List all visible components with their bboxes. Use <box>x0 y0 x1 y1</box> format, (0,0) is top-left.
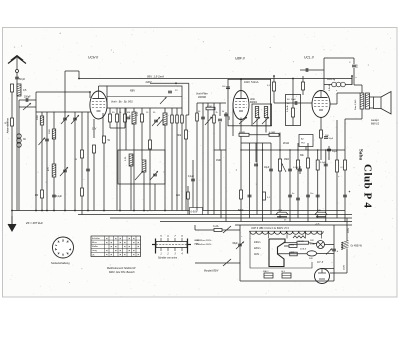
capacitor 50uF mid <box>324 136 328 138</box>
svg-text:220V+: 220V+ <box>254 248 261 250</box>
wire cr182 <box>181 108 183 115</box>
switch mains a <box>223 226 231 233</box>
box oscillator <box>118 150 165 184</box>
wire v54 <box>53 112 55 211</box>
capacitor af4c <box>316 194 320 196</box>
capacitor left d <box>52 194 56 196</box>
wire v65 top <box>64 71 66 112</box>
coil IF2a <box>255 107 258 118</box>
svg-text:95V, 1,5-2mA: 95V, 1,5-2mA <box>147 74 164 78</box>
resistor 1M left <box>41 190 44 198</box>
resistor 70 <box>181 115 184 123</box>
wire heater tap <box>268 231 270 238</box>
wire v317 <box>317 150 319 218</box>
resistor 0,1M a <box>206 107 215 110</box>
svg-text:Gr 455/ W: Gr 455/ W <box>351 245 363 248</box>
svg-text:66μF: 66μF <box>233 243 239 245</box>
wire lc bottom <box>19 106 36 108</box>
svg-text:Schalter von unten: Schalter von unten <box>158 257 178 260</box>
svg-text:UY II: UY II <box>317 260 323 264</box>
wire v298 <box>297 143 299 218</box>
svg-text:1MΩ: 1MΩ <box>284 159 289 161</box>
wire grid row <box>274 102 312 104</box>
wire out bottom <box>345 118 362 120</box>
svg-text:9/9/300: 9/9/300 <box>198 96 207 99</box>
wire v42 <box>41 112 43 211</box>
svg-text:50μF: 50μF <box>238 209 244 212</box>
wire heater tap <box>286 231 288 238</box>
resistor v264r <box>263 192 266 200</box>
wire v290 <box>289 150 291 222</box>
wire v214 <box>213 150 215 215</box>
wire v188 top <box>188 83 190 115</box>
wire v208 <box>207 103 209 215</box>
box IF transformer 2 <box>252 104 272 126</box>
box label divider <box>107 96 182 98</box>
wire heater line <box>249 230 322 232</box>
IF2 arrow a <box>253 117 260 124</box>
osc trimmer arrow a <box>135 171 143 180</box>
wire bus5 <box>160 221 352 223</box>
svg-text:0,1MΩ: 0,1MΩ <box>269 132 276 134</box>
wire bus4 <box>110 217 352 219</box>
svg-text:+: + <box>349 190 351 194</box>
capacitor 10μF <box>269 168 273 170</box>
wire v131 down <box>130 184 132 211</box>
wire v308 <box>307 143 309 222</box>
wire v120 down <box>119 150 121 211</box>
supply arrow right <box>326 249 332 255</box>
svg-text:ZF = 487 kHz: ZF = 487 kHz <box>25 221 43 225</box>
wire k down <box>93 119 95 138</box>
wire mains L <box>195 229 240 231</box>
svg-text:UBF II: UBF II <box>235 57 245 61</box>
wire v134 <box>133 124 135 211</box>
tube UCL II V3 <box>312 91 330 118</box>
mains arrow <box>236 242 244 250</box>
resistor ASB <box>290 252 298 256</box>
resistor 1k <box>116 114 119 122</box>
svg-text:GBL: GBL <box>317 210 322 212</box>
tube UY II rectifier <box>315 269 330 284</box>
wire v226 <box>225 112 227 222</box>
tube UCH II V1 <box>90 91 107 119</box>
wire v347 <box>346 249 348 274</box>
wire v354 b <box>353 68 355 85</box>
IF2 arrow b <box>262 117 269 124</box>
svg-text:-4,7k: -4,7k <box>315 223 319 225</box>
svg-text:9,1mA: 9,1mA <box>286 105 289 112</box>
resistor 500 <box>171 115 174 123</box>
transformer output T1 <box>360 93 364 109</box>
wave switch arrow <box>160 97 167 104</box>
trimmer arrow left <box>23 103 31 110</box>
wire v65 <box>64 112 66 211</box>
wire v186 <box>185 115 187 211</box>
svg-text:110V: 110V <box>254 254 260 256</box>
wire heater tap <box>249 231 251 238</box>
trimmer arrow c <box>60 167 68 176</box>
capacitor v88 <box>86 168 90 170</box>
svg-text:Vorkr · Bu · Sp. 9/51: Vorkr · Bu · Sp. 9/51 <box>111 101 133 104</box>
svg-text:URD: URD <box>290 244 295 246</box>
svg-text:5n: 5n <box>292 193 294 195</box>
svg-text:28 kΩ: 28 kΩ <box>283 143 289 145</box>
resistor left 0,5M <box>11 118 14 126</box>
wire ucl k <box>320 118 322 131</box>
box UBF stage <box>228 79 271 126</box>
resistor 30k af <box>307 158 310 168</box>
coil tone choke <box>332 82 337 87</box>
switch mains b <box>223 259 231 266</box>
wire tone row <box>300 69 324 71</box>
varcap arrow osc <box>152 117 160 126</box>
resistor 1k <box>187 192 190 199</box>
wire 83 feed <box>150 82 189 84</box>
svg-text:Morplat 650/V: Morplat 650/V <box>204 270 219 273</box>
svg-text:2k: 2k <box>216 112 218 114</box>
wire v155 down <box>154 184 156 211</box>
wire row253 <box>278 253 308 255</box>
wire cr172 <box>171 108 173 115</box>
svg-text:4M: 4M <box>127 112 130 114</box>
capacitor f5 <box>224 113 228 115</box>
capacitor var a <box>63 117 67 119</box>
wire row150 <box>214 149 226 151</box>
wire g1 <box>89 92 91 98</box>
svg-text:2xHz-3g: 2xHz-3g <box>326 79 336 81</box>
coil osc d <box>142 160 146 172</box>
resistor 5k <box>103 136 106 143</box>
capacitor v47 <box>45 138 49 140</box>
page sheet <box>3 28 398 298</box>
capacitor mid a <box>126 116 130 118</box>
wire bus6 <box>235 224 352 226</box>
svg-text:UCH II: UCH II <box>88 56 98 60</box>
wire heater tap <box>321 231 323 238</box>
svg-text:Schalter: Schalter <box>92 237 100 240</box>
svg-text:163V: 163V <box>344 264 346 270</box>
varcap arrow a <box>61 115 69 124</box>
wire v337 <box>336 120 338 218</box>
wire v126 <box>125 108 127 150</box>
svg-text:0,1A: 0,1A <box>310 243 315 246</box>
wire antenna down <box>16 73 18 211</box>
resistor 142 <box>141 114 144 122</box>
capacitor box edge <box>226 86 230 88</box>
capacitor electrolytic block a <box>276 212 288 214</box>
wire v266 down <box>265 126 267 133</box>
wire mains stub <box>194 225 196 230</box>
resistor 0,1M row b <box>269 133 279 136</box>
svg-text:GLS/B: GLS/B <box>298 241 304 243</box>
wire v75 <box>74 112 76 211</box>
wire plate-box1 <box>284 242 297 244</box>
wire bus3 <box>78 214 352 216</box>
capacitor can GL3 <box>282 273 291 278</box>
ubf varr <box>239 117 247 124</box>
coil IF2b <box>264 107 267 118</box>
voltage selector plate <box>269 239 285 267</box>
wire anode up <box>98 86 100 91</box>
capacitor 66uF <box>238 243 242 245</box>
coil osc a <box>132 112 136 124</box>
svg-text:10n: 10n <box>310 193 313 195</box>
capacitor ant 50pF <box>15 76 19 78</box>
wire row135 <box>241 134 280 136</box>
svg-text:Saba: Saba <box>358 149 364 160</box>
wire v354 a <box>353 58 355 64</box>
wire lc top <box>19 99 36 101</box>
wire T1 top v <box>361 85 363 93</box>
svg-text:600V- bzw 30V- Bereich: 600V- bzw 30V- Bereich <box>109 271 135 274</box>
svg-text:10μF: 10μF <box>264 167 270 169</box>
capacitor grid <box>294 101 296 105</box>
varcap arrow osc2 <box>157 117 165 126</box>
svg-text:1kΩ: 1kΩ <box>229 116 231 120</box>
coil transformer winding <box>293 236 305 238</box>
coil 5000b <box>52 129 55 139</box>
wire heater tap <box>305 231 307 238</box>
wire box1-lamp <box>309 243 317 244</box>
resistor GLS/B <box>297 241 309 244</box>
wire v249 <box>249 143 251 218</box>
capacitor af3 <box>298 168 302 170</box>
svg-text:668 U/2: 668 U/2 <box>371 124 380 126</box>
coil ant L1 <box>17 84 21 96</box>
svg-text:ACE: ACE <box>249 98 255 101</box>
wire row143 <box>241 142 271 144</box>
box coil assembly <box>107 86 182 108</box>
capacitor c256 <box>254 163 258 165</box>
svg-text:C-2A: C-2A <box>213 225 219 228</box>
resistor 24V oval <box>307 251 317 256</box>
wire phono down <box>305 147 307 151</box>
resistor URD <box>289 245 297 248</box>
resistor 4M <box>124 114 127 122</box>
capacitor right + <box>343 194 347 196</box>
wire v197 <box>196 103 198 211</box>
svg-text:Weller: Weller <box>92 245 98 248</box>
wire mains N <box>195 262 240 264</box>
box 0-30V label <box>190 208 203 215</box>
resistor g2 <box>302 82 305 90</box>
wire tube pin3 <box>102 113 104 136</box>
svg-text:0,1μF: 0,1μF <box>56 196 63 198</box>
resistor f1 <box>196 113 199 121</box>
wire anode out <box>330 103 337 105</box>
svg-text:0-30V: 0-30V <box>191 210 198 214</box>
resistor 30 <box>109 114 112 122</box>
svg-text:WBL: WBL <box>278 210 284 212</box>
resistor right 1 <box>344 160 347 170</box>
capacitor af1 <box>288 168 292 170</box>
svg-text:Lang: Lang <box>92 250 98 252</box>
coil osc b <box>163 113 167 125</box>
table measurements <box>91 236 141 257</box>
capacitor electrolytic block b <box>315 212 327 214</box>
arrows Gr 455 W <box>341 241 349 244</box>
resistor 0,1M row a <box>239 133 249 136</box>
capacitor right supply <box>332 248 336 250</box>
svg-text:Lautspr.: Lautspr. <box>371 119 380 122</box>
svg-text:50 pF: 50 pF <box>19 78 26 81</box>
resistor demod <box>292 108 295 117</box>
svg-text:0,1μF: 0,1μF <box>188 176 195 178</box>
coil 470 <box>52 164 56 177</box>
varcap arrow b <box>71 115 79 124</box>
wire v240 <box>239 225 241 281</box>
capacitor 100pF <box>25 98 27 102</box>
tube socket diagram <box>53 237 74 258</box>
svg-text:LMF: LMF <box>194 244 199 246</box>
wire ubf anode <box>240 79 242 90</box>
svg-text:220V: 220V <box>348 227 350 233</box>
lamp dial 18V 0,1A <box>317 241 325 249</box>
ground arrow <box>11 211 13 225</box>
capacitor 0,1 left <box>63 169 67 171</box>
svg-text:0,1MΩ: 0,1MΩ <box>239 132 246 134</box>
svg-text:UCH II UBF II UCL II 2x 600: UCH II UBF II UCL II 2x 600/V UY II <box>251 227 289 230</box>
wire rowjoin <box>110 127 125 129</box>
resistor 0,1/400 <box>273 82 276 91</box>
svg-text:18V: 18V <box>310 240 314 242</box>
svg-text:Meßinstrument: Multizet W: Meßinstrument: Multizet W <box>107 267 136 270</box>
wire v334 <box>333 225 335 281</box>
heater filament chain <box>250 231 323 234</box>
wire v221 <box>220 150 222 218</box>
box phono A12 <box>299 135 313 147</box>
wire v88 <box>87 112 89 211</box>
resistor v82b <box>81 188 84 196</box>
capacitor 0,1 <box>191 178 195 180</box>
wire ubf k down <box>240 118 242 133</box>
svg-text:5k: 5k <box>222 111 224 113</box>
wire to g1 <box>36 91 90 93</box>
svg-text:5000: 5000 <box>37 114 39 120</box>
wire v203 <box>202 103 204 211</box>
potentiometer volume 1M <box>278 159 281 171</box>
resistor f3 <box>213 115 216 123</box>
capacitor box top <box>168 90 172 92</box>
wire row103 <box>197 102 226 104</box>
svg-text:Club P 4: Club P 4 <box>362 164 374 208</box>
tube UBF II V2 <box>233 91 249 120</box>
wire cm125 <box>124 108 126 114</box>
capacitor f4 <box>218 118 222 120</box>
fuse F1 <box>214 229 222 232</box>
wire pot v <box>279 150 281 218</box>
svg-text:5-8mA: 5-8mA <box>328 84 331 91</box>
resistor af4 <box>316 160 319 170</box>
svg-text:0,1μF: 0,1μF <box>293 167 299 169</box>
coil left L2 (loops) <box>17 134 21 138</box>
wire row150 af <box>241 149 345 151</box>
wire v262 <box>262 143 264 222</box>
svg-text:10nF: 10nF <box>291 99 297 101</box>
svg-text:0,1μF: 0,1μF <box>320 162 326 164</box>
svg-text:1MΩ: 1MΩ <box>216 159 221 162</box>
svg-text:240V+: 240V+ <box>254 242 261 244</box>
coil osc c <box>129 154 133 166</box>
svg-text:UCL II: UCL II <box>304 56 314 60</box>
wire v36 <box>35 100 37 211</box>
svg-text:50μF: 50μF <box>329 138 334 140</box>
svg-text:ε: ε <box>336 90 337 92</box>
svg-text:WBL2: WBL2 <box>263 271 269 273</box>
arrow left v42 <box>39 138 46 146</box>
power unit outline <box>250 238 312 268</box>
wire plate-urd <box>284 245 289 247</box>
wire ground bus <box>12 210 345 212</box>
capacitor af small b <box>296 197 300 199</box>
wire v325 <box>325 150 327 222</box>
wire cm117 <box>116 108 118 114</box>
wire oval-right <box>317 252 334 254</box>
svg-text:1M: 1M <box>35 195 38 197</box>
resistor 150 <box>149 140 152 149</box>
wire to T1 top <box>354 84 362 86</box>
wire v82 <box>81 112 83 215</box>
speaker LS1 <box>374 97 382 109</box>
coil 5000a <box>40 116 43 125</box>
capacitor osc <box>154 119 158 121</box>
antenna symbol <box>11 56 23 61</box>
svg-text:Sockelschaltung: Sockelschaltung <box>51 261 70 265</box>
capacitor tone1 <box>305 68 307 72</box>
wire v256 down <box>256 126 258 215</box>
svg-text:REV: REV <box>130 90 135 93</box>
resistor v82 <box>81 150 84 158</box>
capacitor var b <box>73 117 77 119</box>
wire lamp-right <box>325 244 335 246</box>
switch drum diagram <box>156 242 187 248</box>
svg-text:5000: 5000 <box>49 128 51 134</box>
box demod <box>286 95 301 126</box>
wire v347 upper <box>346 218 348 241</box>
wire to transformer <box>337 92 360 94</box>
resistor Rk <box>93 145 96 153</box>
svg-text:Prim 1,3kΩ: Prim 1,3kΩ <box>354 99 357 110</box>
wire ucl top v <box>323 58 325 90</box>
wire B+ bus 95V <box>79 78 352 80</box>
wire bottom supply <box>240 280 334 282</box>
svg-text:0,1M: 0,1M <box>207 106 212 108</box>
wire v241 <box>240 150 242 222</box>
resistor Rk ucl <box>320 130 323 138</box>
pot wiper arrow <box>282 163 287 172</box>
svg-text:Murz: Murz <box>92 241 97 244</box>
resistor right 2 <box>336 160 339 172</box>
wire v233 <box>232 103 234 136</box>
capacitor af small a <box>288 194 292 196</box>
wire v345 <box>344 119 346 150</box>
resistor v241r <box>240 190 243 199</box>
capacitor v249c <box>248 194 252 196</box>
wire v47 <box>46 112 48 211</box>
wire demod up <box>292 79 294 95</box>
capacitor can WBL2 <box>264 273 273 278</box>
osc trimmer arrow b <box>150 171 158 180</box>
filter arrow <box>205 117 212 125</box>
resistor ant <box>11 84 14 92</box>
wire cm110 <box>109 108 111 114</box>
wire left2 <box>18 100 20 211</box>
svg-text:24V: 24V <box>309 258 313 260</box>
resistor HT drop <box>185 130 188 139</box>
capacitor af small c <box>306 194 310 196</box>
wire ucl top h <box>324 57 354 59</box>
